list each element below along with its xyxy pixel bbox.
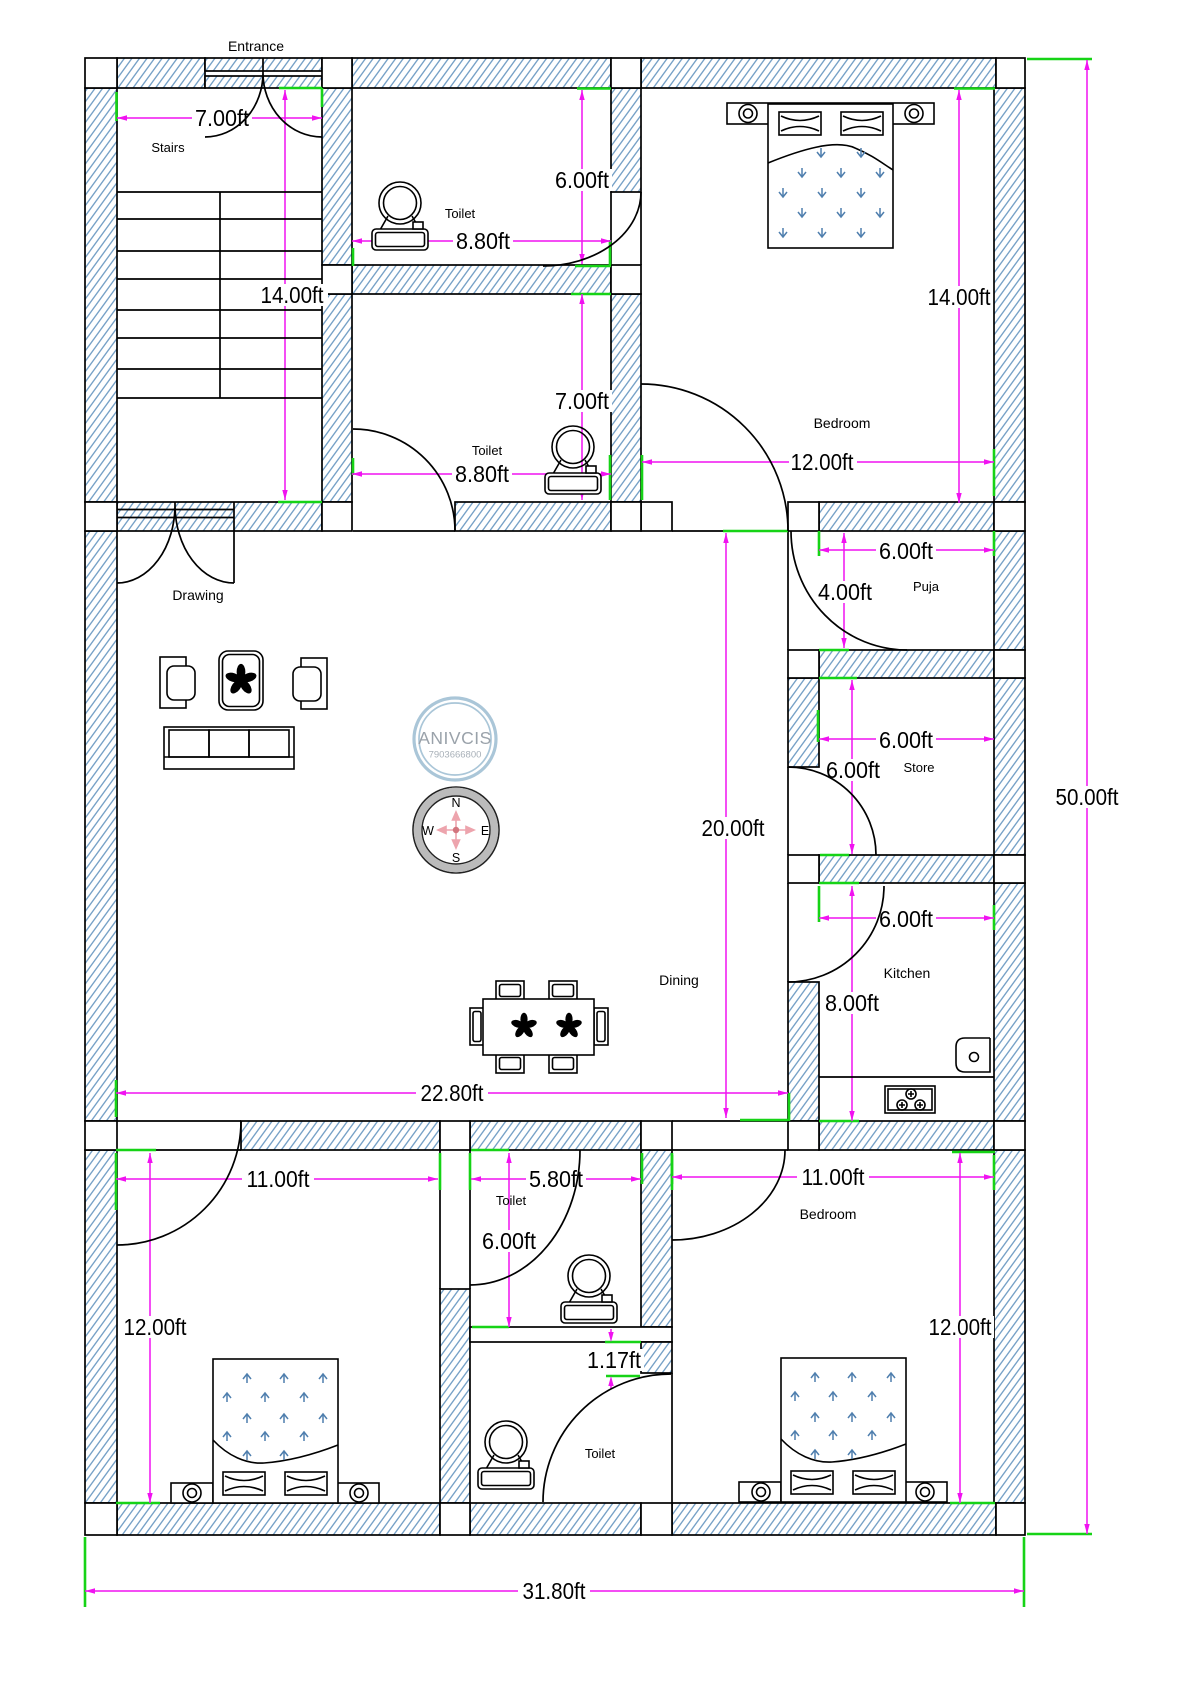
wall A open box under bedroom door-jamb [641, 502, 672, 531]
dining chairs top [496, 981, 524, 1000]
top bedroom door arc [641, 384, 788, 531]
junction box right wall / wall A [994, 502, 1025, 531]
svg-text:E: E [481, 824, 489, 838]
dim 14.00ft stairs height [256, 90, 328, 500]
svg-text:6.00ft: 6.00ft [879, 906, 934, 932]
green marks bedroom2 left wall [642, 1153, 672, 1184]
junction box bed1 wall / big room bottom [440, 1121, 470, 1150]
store bottom wall [819, 855, 994, 883]
junction box toilets wall / wall A [611, 502, 641, 531]
junction box wall A / right column [788, 502, 819, 531]
svg-text:ANIVCIS: ANIVCIS [418, 728, 492, 748]
svg-text:N: N [451, 796, 460, 810]
top bed right side circle [905, 105, 923, 123]
puja bottom wall [819, 650, 994, 678]
dim 6.00ft puja width [819, 538, 994, 564]
bottom-right bed [739, 1482, 781, 1502]
dim 8.80ft toilet A width [352, 228, 611, 254]
kitchen door arc [788, 886, 884, 982]
toiletD door opening face line [671, 1373, 673, 1503]
dining chairs sides [470, 1008, 484, 1045]
toilets right wall lower piece [611, 294, 641, 502]
right column left wall kitchen piece [788, 982, 819, 1121]
junction box top-right corner [996, 58, 1025, 88]
svg-text:12.00ft: 12.00ft [929, 1314, 993, 1340]
kitchen counter line [819, 1076, 994, 1078]
drawing room left armchair [160, 657, 186, 708]
right exterior wall bottom bedroom segment [994, 1150, 1025, 1503]
svg-text:Toilet: Toilet [472, 443, 503, 458]
entrance double door [205, 58, 322, 137]
green extension 50ft dim bottom [1027, 1533, 1092, 1536]
bottom exterior wall right segment [672, 1503, 996, 1535]
dim 14.00ft bedroom height [925, 90, 993, 503]
svg-text:Toilet: Toilet [496, 1193, 527, 1208]
toilet D door arc [543, 1374, 671, 1502]
green mark 20ft dim bottom [740, 1119, 788, 1122]
svg-text:Store: Store [903, 760, 934, 775]
toilet A door arc [543, 192, 641, 266]
right column left wall store piece [788, 678, 819, 767]
toilet B door arc [353, 429, 455, 531]
dim 50.00ft overall height [1051, 60, 1123, 1534]
top exterior wall left segment [117, 58, 205, 88]
dim 11.00ft bedroom2 width [672, 1164, 994, 1190]
svg-text:11.00ft: 11.00ft [247, 1166, 311, 1192]
junction box right column / puja bottom [788, 650, 819, 678]
junction box stairs wall / wall A [322, 502, 352, 531]
dim 11.00ft bedroom1 width [116, 1166, 438, 1192]
svg-text:12.00ft: 12.00ft [791, 449, 855, 475]
stairs right wall lower [322, 294, 352, 502]
svg-text:22.80ft: 22.80ft [421, 1080, 485, 1106]
svg-text:6.00ft: 6.00ft [555, 167, 610, 193]
green marks toilet divider [571, 266, 611, 294]
junction box top-left corner [85, 58, 117, 88]
svg-text:7.00ft: 7.00ft [195, 105, 250, 131]
right exterior wall store segment [994, 678, 1025, 855]
compass [413, 787, 499, 873]
svg-text:Kitchen: Kitchen [884, 965, 931, 981]
svg-text:7.00ft: 7.00ft [555, 388, 610, 414]
right exterior wall puja segment [994, 531, 1025, 650]
dim 20.00ft dining height [697, 533, 769, 1118]
dim 8.80ft toilet B width [352, 461, 611, 487]
toilet A WC [372, 182, 428, 250]
dim 7.00ft stairs width [117, 105, 322, 131]
svg-text:Stairs: Stairs [151, 140, 185, 155]
drawing room sofa [164, 727, 294, 769]
dim 12.00ft bedroom1 height [119, 1153, 191, 1503]
svg-text:Entrance: Entrance [228, 38, 284, 54]
dim 8.00ft kitchen height [823, 886, 883, 1121]
svg-text:6.00ft: 6.00ft [879, 538, 934, 564]
dim 12.00ft bedroom2 height [926, 1153, 994, 1503]
junction box bottom-right corner [996, 1503, 1025, 1535]
dim 7.00ft toilet B height [552, 294, 612, 500]
stairs right wall upper [322, 88, 352, 265]
top bed blanket wave [768, 145, 893, 170]
junction box top stairs wall [322, 58, 352, 88]
green extension 22.8ft dim [116, 1080, 789, 1121]
green extension 50ft dim top [1027, 58, 1092, 61]
svg-text:6.00ft: 6.00ft [482, 1228, 537, 1254]
bedroom1 door arc [117, 1121, 241, 1245]
junction box bed2 wall / big room bottom [641, 1121, 672, 1150]
bedroom bottom wall hatched segment [819, 502, 994, 531]
svg-text:Dining: Dining [659, 972, 699, 988]
green mark right wall 12ft dim [993, 449, 996, 496]
junction box right wall / store bottom [994, 855, 1025, 883]
toilet C/D divider slab [470, 1327, 672, 1342]
svg-text:11.00ft: 11.00ft [802, 1164, 866, 1190]
wall A segment under toilet B [455, 502, 611, 531]
entrance opening threshold [205, 58, 322, 88]
svg-text:8.00ft: 8.00ft [825, 990, 880, 1016]
toilet C WC [561, 1255, 617, 1323]
kitchen sink [956, 1038, 990, 1072]
bedroom2 left wall upper piece [641, 1150, 672, 1327]
dim 5.80ft toiletC width [471, 1166, 641, 1192]
bedroom2 left wall small piece [641, 1342, 672, 1373]
left exterior wall upper segment [85, 88, 117, 502]
bottom-left bed body [171, 1483, 213, 1503]
right column left wall face line at puja [787, 531, 789, 650]
green mark store left wall [817, 710, 820, 742]
svg-text:W: W [422, 824, 434, 838]
store door arc [788, 767, 876, 855]
big room bottom wall segment 1 [241, 1121, 440, 1150]
svg-text:Puja: Puja [913, 579, 940, 594]
kitchen door opening face line [787, 883, 789, 982]
dining chairs bottom [496, 1054, 524, 1073]
dining table [483, 999, 594, 1055]
junction box left wall / wall A [85, 502, 117, 531]
toilet D WC [478, 1421, 534, 1489]
top exterior wall right segment [641, 58, 996, 88]
svg-text:Toilet: Toilet [445, 206, 476, 221]
toilet A door opening in wall [611, 192, 641, 265]
green marks bedroom2 dims [672, 1152, 995, 1503]
drawing room double door below stairs [117, 502, 234, 583]
top bed pillows [779, 112, 821, 135]
junction box left wall / big room bottom [85, 1121, 117, 1150]
dim 6.00ft store width [819, 727, 994, 753]
svg-text:31.80ft: 31.80ft [523, 1578, 587, 1604]
svg-text:S: S [452, 851, 460, 865]
toilet C door arc [470, 1150, 580, 1285]
svg-text:Bedroom: Bedroom [814, 415, 871, 431]
dim 4.00ft puja height [815, 533, 875, 648]
svg-text:50.00ft: 50.00ft [1056, 784, 1120, 810]
green extension 14ft bedroom dim [954, 87, 995, 90]
big room bottom wall segment 3 (kitchen bottom) [819, 1121, 994, 1150]
junction box stairs wall / divider [322, 265, 352, 294]
svg-text:4.00ft: 4.00ft [818, 579, 873, 605]
junction box bottom bed1 wall [440, 1503, 470, 1535]
svg-text:8.80ft: 8.80ft [455, 461, 510, 487]
green mark bedroom door opening [723, 530, 788, 533]
svg-text:14.00ft: 14.00ft [928, 284, 992, 310]
top bedroom bed headboard bar [727, 103, 934, 124]
green extensions 31.8ft dim [85, 1537, 1024, 1607]
drawing room right armchair [301, 658, 327, 709]
green marks puja corner [819, 531, 994, 556]
puja door arc [791, 531, 907, 650]
green marks toiletC/D divider [472, 1327, 641, 1376]
wall A segment with drawing door threshold [117, 502, 322, 531]
green marks toilets right wall 12ft dim [610, 455, 642, 500]
junction box top toilets wall [611, 58, 641, 88]
wall A bedroom door opening bottom line [672, 530, 788, 532]
wall A toilet B door opening [353, 530, 455, 532]
svg-text:14.00ft: 14.00ft [261, 282, 325, 308]
svg-text:1.17ft: 1.17ft [587, 1347, 642, 1373]
junction box right wall / puja bottom [994, 650, 1025, 678]
big room bottom wall: bedroom2 door opening lines [672, 1121, 788, 1150]
bedroom1/toiletC wall hatched piece [440, 1289, 470, 1503]
green opening mark stairs top right [279, 88, 322, 107]
right exterior wall kitchen segment [994, 883, 1025, 1121]
toilets right wall upper piece [611, 88, 641, 192]
toilet B WC [545, 426, 601, 494]
green marks bedroom1 dims [116, 1150, 160, 1503]
ANIVCIS logo [414, 698, 496, 780]
junction box right column / store bottom [788, 855, 819, 883]
bedroom2 door arc [672, 1150, 785, 1240]
green marks kitchen dim extensions [819, 886, 994, 930]
dim 6.00ft store height [823, 680, 883, 854]
svg-text:20.00ft: 20.00ft [702, 815, 766, 841]
green mark kitchen bottom [819, 1120, 859, 1123]
green marks store bottom wall [819, 855, 859, 883]
green marks toiletC walls [440, 1150, 509, 1190]
svg-text:7903666800: 7903666800 [429, 750, 482, 761]
left exterior wall middle segment [85, 531, 117, 1121]
svg-text:Bedroom: Bedroom [800, 1206, 857, 1222]
dim 6.00ft toilet A height [552, 90, 612, 264]
green opening mark stairs left [115, 92, 118, 121]
toilet A/B divider wall [352, 265, 611, 294]
big room bottom wall segment 2 (toilet C top) [470, 1121, 641, 1150]
top bed body [768, 104, 893, 248]
dim 1.17ft wall piece [584, 1329, 644, 1389]
green mark wall A stairs opening [278, 501, 322, 504]
big room bottom wall: bedroom1 door opening lines [117, 1121, 241, 1150]
stairs steps [117, 192, 322, 398]
dim 12.00ft bedroom width [642, 449, 994, 475]
right exterior wall bedroom segment [994, 88, 1025, 502]
svg-text:Toilet: Toilet [585, 1446, 616, 1461]
dim 6.00ft kitchen width [819, 906, 994, 932]
bottom exterior wall left segment [117, 1503, 440, 1535]
bottom exterior wall middle segment [470, 1503, 641, 1535]
junction box toilets wall / divider [611, 265, 641, 294]
svg-text:6.00ft: 6.00ft [879, 727, 934, 753]
junction box bottom bed2 wall [641, 1503, 672, 1535]
top bed left side circle [739, 105, 757, 123]
svg-text:8.80ft: 8.80ft [456, 228, 511, 254]
dim 31.80ft overall width [85, 1578, 1024, 1604]
left exterior wall lower segment [85, 1150, 117, 1503]
kitchen stove [885, 1086, 935, 1113]
top exterior wall mid segment [352, 58, 611, 88]
green marks toiletA dim extensions [353, 89, 611, 476]
store door opening face line [787, 767, 789, 855]
dim 6.00ft toiletC height [479, 1153, 539, 1327]
svg-text:Drawing: Drawing [172, 587, 223, 603]
svg-text:12.00ft: 12.00ft [124, 1314, 188, 1340]
green marks puja bottom wall [819, 650, 857, 678]
bedroom1/toiletC wall door opening lines [440, 1150, 470, 1289]
drawing room coffee table [219, 651, 263, 710]
junction box right column / big room bottom [788, 1121, 819, 1150]
dim 22.80ft dining width [116, 1080, 788, 1106]
junction box bottom-left corner [85, 1503, 117, 1535]
junction box right wall / kitchen bottom [994, 1121, 1025, 1150]
top bed arrows [779, 148, 884, 237]
